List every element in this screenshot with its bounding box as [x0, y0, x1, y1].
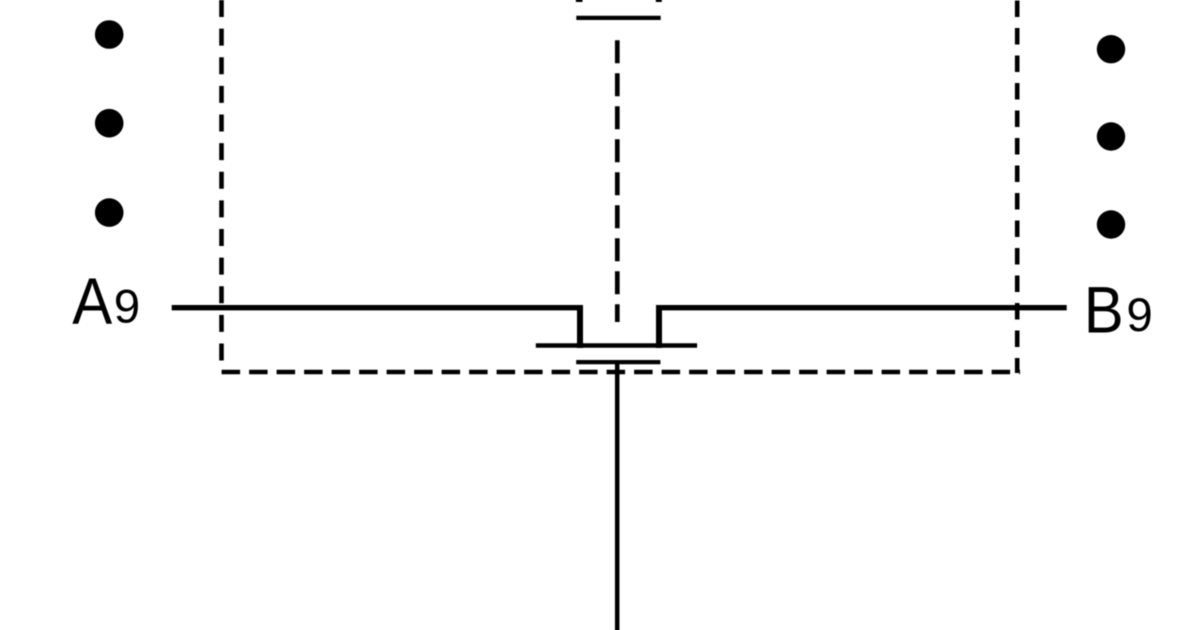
transistor Q1 (cropped at top): source lead stub — [576, 0, 583, 2]
dashed cell-boundary box: bottom edge — [222, 370, 1020, 375]
svg-text:B: B — [1084, 274, 1124, 347]
transistor Q1: gate bar — [576, 16, 660, 20]
dashed cell-boundary box: right edge — [1015, 0, 1020, 373]
ellipsis dots right (omitted B lines) — [1097, 35, 1125, 239]
svg-text:9: 9 — [1126, 289, 1152, 342]
transistor Q9: source lead (left vertical drop) — [577, 305, 583, 348]
transistor Q9: channel line — [536, 343, 697, 348]
node label A9 — [72, 266, 140, 339]
ellipsis dots left (omitted A lines) — [95, 20, 124, 227]
wire: Q9 gate line running down to bottom edge — [615, 364, 620, 630]
svg-text:A: A — [72, 266, 112, 339]
transistor Q1 (cropped at top): drain lead stub — [656, 0, 662, 2]
wire: A9 terminal to Q9 source — [172, 305, 583, 310]
transistor Q9: gate bar — [576, 360, 660, 364]
wire: Q9 drain to B9 terminal — [656, 305, 1067, 310]
transistor Q9: drain lead (right vertical drop) — [656, 305, 662, 348]
svg-text:9: 9 — [114, 281, 140, 334]
node label B9 — [1084, 274, 1153, 347]
dashed cell-boundary box: left edge — [219, 0, 224, 361]
wire: dashed gate line from Q1 running down (omitted rows) — [615, 40, 620, 322]
